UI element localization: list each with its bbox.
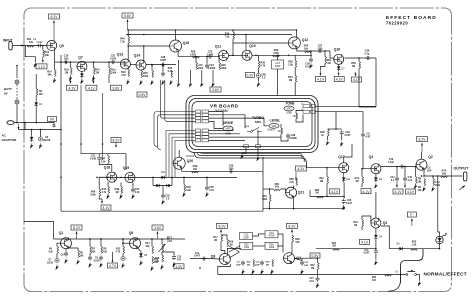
svg-text:100/16: 100/16	[43, 139, 51, 142]
svg-text:10k: 10k	[275, 186, 280, 189]
transistor Q12	[288, 37, 300, 49]
wire loop to R61	[263, 188, 274, 190]
svg-text:LEVEL: LEVEL	[270, 119, 281, 123]
svg-text:Q13: Q13	[117, 53, 124, 57]
transistor Q13	[120, 59, 130, 69]
terminal circle below 9V box	[53, 125, 55, 127]
wire to D2	[31, 130, 33, 136]
wire Q1 base	[57, 243, 61, 246]
wire R12 down	[122, 254, 124, 257]
wire Q20 collector up	[178, 150, 180, 157]
wire R28b to R01	[294, 68, 296, 76]
svg-text:1/50: 1/50	[427, 170, 432, 172]
capacitor C2b inside VR	[286, 133, 290, 138]
ground SW1 pin	[257, 156, 260, 161]
svg-text:1M: 1M	[96, 71, 99, 74]
svg-text:8.2V: 8.2V	[289, 224, 297, 228]
ground under R41	[92, 76, 95, 81]
resistor R41	[94, 68, 96, 75]
ground C38	[342, 205, 345, 210]
wire C26 top	[310, 51, 312, 57]
diode D2	[30, 135, 34, 142]
ground R8	[414, 184, 417, 189]
voltage box 3.6V bottom	[152, 225, 163, 230]
svg-text:4.3k: 4.3k	[48, 250, 53, 253]
voltage box 8.2V mid left	[111, 138, 121, 143]
wire R43 down	[361, 227, 363, 231]
svg-text:R16: R16	[155, 258, 160, 260]
wire rail to R44	[127, 30, 129, 37]
ground under C25	[162, 80, 165, 85]
resistor R4b	[121, 187, 123, 194]
svg-text:4.7k: 4.7k	[116, 250, 121, 253]
svg-text:R62: R62	[319, 178, 324, 180]
capacitor C23	[207, 55, 212, 59]
svg-text:0.2V: 0.2V	[247, 73, 255, 77]
wire T right down	[278, 234, 284, 246]
transistor Q4	[284, 253, 295, 264]
wires inside VR board	[209, 112, 224, 127]
resistor R42	[305, 51, 312, 53]
ground R35	[271, 269, 274, 274]
ground R5	[77, 260, 80, 265]
capacitor C31	[97, 156, 101, 161]
connector pins right	[301, 104, 316, 108]
resistor R19a	[71, 68, 73, 75]
wire adaptor return row	[19, 129, 62, 131]
svg-text:R59: R59	[262, 196, 267, 198]
svg-text:R17: R17	[213, 237, 218, 239]
capacitor C1d	[300, 260, 304, 265]
svg-text:4.1V: 4.1V	[395, 190, 403, 194]
wire bundle to Q17 gate	[307, 167, 339, 169]
ground input sleeve	[34, 63, 37, 68]
voltage box 8.2V over Q8	[217, 223, 228, 228]
resistor R23	[411, 249, 418, 251]
wire Q6 base	[123, 242, 130, 244]
wire LED top feed	[438, 232, 440, 236]
resistor R61	[274, 189, 281, 191]
diode D11	[160, 176, 167, 180]
transistor Q6	[130, 238, 141, 249]
svg-text:4.7k: 4.7k	[260, 64, 265, 67]
svg-text:220P: 220P	[255, 264, 260, 266]
svg-text:VR2: VR2	[286, 107, 292, 111]
ground R6b	[423, 187, 426, 192]
wire left loop edge	[358, 69, 360, 108]
voltage box 3.6V below Ra1	[110, 85, 121, 90]
svg-text:4.1V: 4.1V	[361, 240, 369, 244]
capacitor C25	[161, 71, 165, 76]
ground C11	[375, 260, 378, 265]
wire gndB stem	[190, 70, 192, 82]
svg-text:C14: C14	[195, 252, 200, 255]
wire R59 top	[269, 189, 271, 195]
capacitor C3c	[131, 187, 135, 192]
capacitor C21	[110, 60, 115, 64]
wire R27 top	[151, 65, 153, 71]
wire Q15 emitter row	[178, 52, 218, 57]
diode D5	[139, 252, 143, 259]
resistor R26 boxed	[265, 242, 278, 249]
resistor R51	[325, 57, 327, 64]
resistor R45	[171, 71, 173, 78]
wire gndC stem	[201, 70, 203, 82]
svg-text:0.047: 0.047	[364, 252, 371, 255]
arrow 8.2V q4	[291, 230, 293, 234]
resistor R8	[416, 177, 418, 184]
wire input to Q5 gate	[12, 45, 47, 47]
svg-text:210k: 210k	[273, 52, 279, 55]
resistor R34	[233, 32, 235, 39]
AC adaptor jack J2	[7, 121, 14, 125]
wire Q13 to Q14	[130, 64, 136, 66]
ground C32	[162, 200, 165, 205]
svg-text:4.7k: 4.7k	[289, 181, 294, 184]
wire R25 top	[140, 69, 142, 72]
wire row left up stub	[24, 222, 54, 240]
svg-text:0.047: 0.047	[344, 134, 351, 137]
svg-text:R38: R38	[295, 239, 300, 241]
wire R2 top	[35, 74, 37, 89]
diode network box	[152, 177, 154, 185]
svg-text:F-: F-	[410, 213, 413, 217]
wire R34 node down to row	[232, 43, 234, 55]
svg-text:100P: 100P	[304, 265, 309, 267]
resistor R11	[27, 46, 34, 48]
ground under R25	[140, 80, 143, 85]
svg-text:4.1V: 4.1V	[331, 190, 339, 194]
svg-text:1.6V: 1.6V	[176, 265, 184, 269]
arrow 4.2V	[295, 172, 297, 180]
resistor R4a	[108, 187, 110, 194]
resistor R28b	[295, 61, 297, 68]
ground D5	[140, 261, 143, 266]
resistor R20 boxed	[240, 242, 253, 249]
ground R16	[161, 265, 164, 270]
svg-text:C19: C19	[389, 159, 394, 161]
resistor R62	[327, 177, 329, 184]
svg-text:100k: 100k	[221, 67, 227, 70]
arrow 4.7V	[112, 259, 114, 263]
capacitor C12 boxed	[240, 233, 253, 240]
wire R51 to arrow	[321, 64, 326, 71]
ground row A	[177, 82, 180, 87]
svg-text:R22: R22	[372, 277, 377, 279]
wire to 4.7V arrow	[112, 252, 114, 259]
svg-text:1M: 1M	[315, 192, 318, 195]
wire R01 to board	[294, 83, 296, 96]
wire Ra1 down	[108, 75, 110, 84]
wire long rail x61	[60, 55, 62, 211]
wire R9 top	[100, 239, 102, 247]
wire R24 top	[127, 68, 129, 71]
capacitor C3	[38, 137, 42, 141]
transistor Q16	[334, 54, 344, 64]
wire top T	[253, 234, 265, 236]
wire Q15 base to R44 node	[128, 45, 169, 47]
wire Q14 row right	[146, 64, 176, 66]
resistor R47	[108, 156, 110, 163]
wire R39 row	[328, 128, 342, 130]
wire R21 row	[316, 248, 376, 250]
wire A01 top	[195, 57, 197, 63]
voltage box 1.1V	[36, 64, 47, 69]
svg-text:C2B: C2B	[291, 135, 296, 137]
wire R17 down	[221, 242, 225, 254]
wire R51 top	[324, 51, 326, 57]
svg-text:4.1V: 4.1V	[407, 190, 415, 194]
svg-text:10kB 3: 10kB 3	[267, 129, 275, 132]
wires exiting VR right	[316, 105, 377, 107]
wire Q2 emitter to output	[424, 170, 463, 176]
ground under D8	[81, 79, 84, 84]
resistor R17	[221, 235, 223, 242]
svg-text:4.7μF: 4.7μF	[388, 161, 395, 164]
wire R47 top	[107, 154, 109, 156]
wire R8 top	[415, 167, 417, 177]
voltage box F- mode	[407, 212, 416, 217]
svg-text:470P: 470P	[269, 235, 275, 238]
svg-text:C41: C41	[390, 176, 395, 179]
resistor R14b	[55, 70, 57, 77]
voltage box 1.6V	[174, 264, 184, 269]
svg-text:Q8: Q8	[211, 255, 216, 259]
svg-text:0.0068: 0.0068	[289, 138, 297, 140]
transistor Q17	[339, 163, 349, 173]
voltage box 4.2V	[296, 166, 307, 171]
svg-text:16k: 16k	[304, 47, 309, 50]
wire dash stub	[400, 274, 402, 284]
resistor R15	[152, 257, 154, 264]
output jack arrow	[462, 185, 465, 188]
resistor R46	[184, 185, 186, 192]
svg-text:R4A: R4A	[102, 188, 107, 191]
resistor R29	[273, 55, 280, 57]
diode D8	[80, 72, 84, 79]
arrow 4.1V under R51	[320, 71, 322, 76]
wire R28b top	[294, 55, 296, 60]
wire Q18 down	[107, 182, 109, 187]
svg-text:100P: 100P	[160, 59, 166, 62]
wire C4a top	[432, 176, 434, 179]
transistor Q1	[61, 238, 72, 249]
svg-text:4.1V: 4.1V	[103, 206, 111, 210]
wire Q4 out	[294, 258, 302, 260]
svg-text:C15: C15	[309, 278, 314, 280]
wire Q5 source down	[54, 50, 56, 62]
input jack J1	[9, 42, 12, 51]
svg-text:1M: 1M	[327, 62, 330, 65]
resistor R4	[57, 247, 59, 254]
voltage box 8.2V right	[417, 137, 428, 142]
resistor R01	[295, 76, 297, 83]
svg-text:0.047: 0.047	[346, 202, 353, 205]
voltage box 8.2V bottom left	[71, 225, 82, 230]
wire Q19 down b	[132, 183, 134, 188]
svg-text:220P: 220P	[236, 264, 241, 266]
VR board middle wire loop	[189, 99, 315, 150]
svg-text:10k: 10k	[47, 73, 52, 76]
resistor R48	[99, 189, 101, 196]
arrow C41	[396, 182, 398, 188]
wire R41 top	[93, 62, 95, 67]
voltage box 8.2V over Q4	[287, 223, 298, 228]
wire x81 corner to Q19 top	[81, 153, 126, 155]
arrow F- box	[411, 219, 413, 227]
diode D12	[342, 176, 346, 183]
wire T to Q4	[278, 246, 284, 253]
svg-text:7.2k: 7.2k	[120, 40, 125, 43]
capacitor C28	[160, 63, 165, 67]
wire Q17 top	[344, 144, 352, 163]
svg-text:100k: 100k	[198, 67, 204, 70]
ground C33	[340, 142, 343, 147]
voltage box 4.1V under C40	[406, 189, 416, 194]
wire Q11 to Q10	[229, 54, 243, 56]
wire to C3	[40, 130, 42, 137]
resistor R24	[128, 70, 130, 77]
wire R4 to C7	[56, 254, 58, 259]
svg-text:SW1: SW1	[255, 120, 262, 124]
wire C33 down	[341, 135, 343, 140]
voltage box 4.1V under R51	[316, 77, 326, 82]
ground C1d	[301, 269, 304, 274]
svg-text:Q14: Q14	[134, 54, 141, 58]
resistor R25	[141, 71, 143, 78]
wire R2 to D1	[35, 96, 37, 101]
wire Q1 emitter	[65, 249, 67, 252]
wire drop to R39 row	[335, 112, 337, 129]
arrow 8.2V mid left	[115, 143, 117, 148]
svg-text:100k: 100k	[90, 193, 96, 196]
svg-text:R1A: R1A	[355, 177, 360, 180]
ground under R19a	[69, 76, 72, 81]
VR board outer wire loop	[186, 96, 318, 153]
resistor R43	[362, 220, 364, 227]
wire Q2 collector up	[421, 152, 423, 159]
wire bottom loop around middle-left section	[61, 210, 263, 212]
svg-text:9V: 9V	[50, 118, 55, 122]
wire rail to R34	[232, 30, 234, 32]
measure arrow 6.2V	[53, 21, 55, 41]
wire R59 bottom	[269, 202, 271, 209]
resistor R58	[296, 179, 298, 186]
svg-text:VR BOARD: VR BOARD	[210, 104, 239, 109]
voltage box 4.1V bottom right	[360, 239, 370, 244]
LED D13	[436, 233, 447, 244]
wire bottom row Q21	[263, 208, 345, 210]
ground C18	[261, 269, 264, 274]
diode D7	[337, 65, 341, 72]
wire R14 top	[151, 239, 153, 247]
wire Q4b source to D6 row	[381, 226, 389, 249]
svg-text:2.2k: 2.2k	[101, 160, 106, 163]
svg-text:Q3: Q3	[369, 155, 374, 159]
wire R47 bottom	[107, 163, 109, 165]
wire down to Q4b	[375, 192, 377, 218]
wire switch to ground	[417, 275, 420, 281]
svg-text:Q1: Q1	[59, 231, 64, 235]
capacitor C10	[63, 60, 68, 64]
wire VR2 bottom	[296, 115, 303, 123]
arrow C40	[404, 182, 406, 188]
wire SW1 pin down	[257, 148, 259, 156]
svg-text:0.018: 0.018	[90, 157, 97, 160]
wire R46 top	[183, 177, 185, 184]
wire R38 down	[291, 242, 293, 253]
wire C31 top	[98, 154, 100, 156]
main row y177	[99, 176, 237, 178]
VR1 pot resistor	[281, 128, 283, 134]
wire Q3 to D3	[375, 174, 377, 176]
ground C8	[65, 259, 68, 264]
svg-text:Q20: Q20	[187, 159, 194, 163]
transistor Q8	[219, 254, 230, 265]
ground aux pin	[241, 154, 244, 159]
svg-text:1M: 1M	[352, 65, 355, 68]
wire C2b down	[257, 78, 259, 82]
ground R39	[326, 141, 329, 146]
svg-text:100P: 100P	[275, 65, 281, 68]
wire cross a	[229, 246, 240, 252]
resistor R5	[78, 251, 80, 258]
wire loop bottom	[359, 106, 376, 108]
transistor Q5	[47, 40, 57, 50]
wire R13 top	[42, 46, 44, 51]
wire R7 top	[89, 239, 91, 247]
wire 9V box to terminal	[53, 122, 55, 125]
transistor Q10	[242, 50, 252, 60]
wire RT1 to R16	[161, 252, 163, 255]
ground D3	[375, 184, 378, 189]
svg-text:ADAPTOR: ADAPTOR	[2, 138, 18, 142]
S-curve wire bottom right	[388, 249, 423, 292]
wire R32 to C15	[317, 270, 319, 277]
svg-text:9V: 9V	[4, 92, 8, 96]
ground C9c	[100, 263, 103, 268]
svg-text:1M: 1M	[115, 192, 118, 194]
svg-text:Q11: Q11	[215, 45, 221, 49]
wire D12 to C38	[343, 182, 345, 198]
ground under R45	[170, 80, 173, 85]
svg-text:TONE: TONE	[285, 102, 295, 106]
resistor A01	[196, 63, 198, 70]
svg-text:R12: R12	[116, 249, 121, 251]
wire bundle VR to right section	[195, 153, 307, 168]
diode D10	[165, 184, 172, 188]
voltage box 4.1V right mid	[330, 189, 340, 194]
wire Q21 emitter down	[293, 198, 295, 209]
wire Q6 to D5	[138, 248, 142, 252]
svg-text:C38: C38	[347, 200, 352, 202]
svg-text:3.6V: 3.6V	[154, 226, 162, 230]
svg-text:Q15: Q15	[183, 41, 190, 45]
wire R1a top	[361, 169, 363, 177]
wire to R14b	[54, 62, 56, 69]
diode D3	[374, 176, 378, 183]
wire C14 to Q8 base	[212, 258, 219, 260]
arrow 4.1V right	[93, 76, 95, 84]
ground R46	[183, 192, 186, 197]
resistor R38	[292, 235, 294, 242]
svg-text:10/16: 10/16	[47, 262, 54, 264]
svg-text:R14: R14	[145, 242, 150, 245]
arrow 4.1V under D7	[338, 72, 340, 76]
wire aux pin down	[242, 148, 246, 153]
wire VR1 pot top	[280, 124, 282, 128]
svg-text:1M: 1M	[355, 181, 358, 183]
